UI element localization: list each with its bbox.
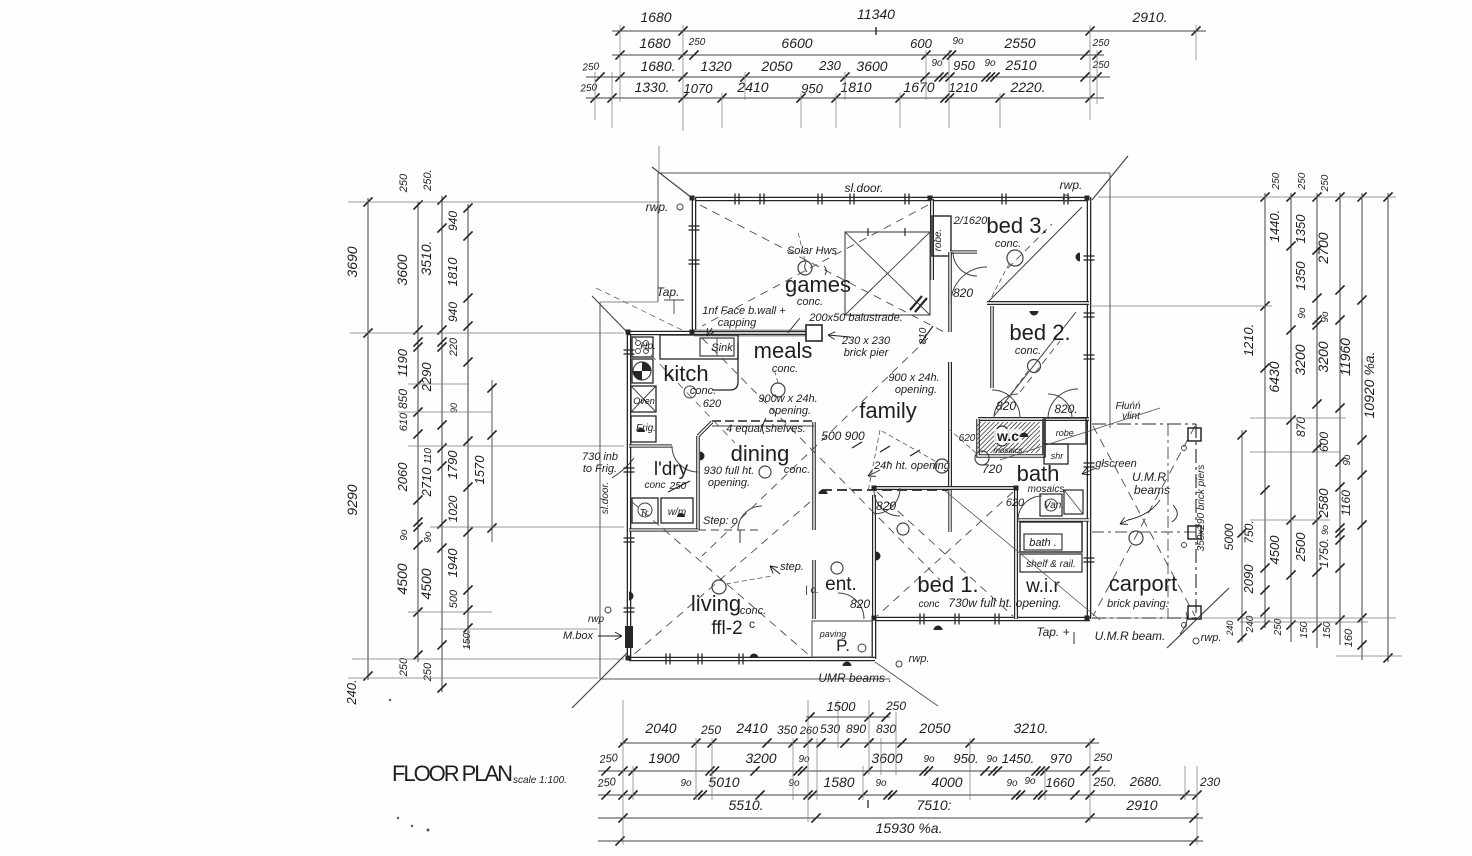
svg-text:sl.door.: sl.door. [845, 181, 884, 195]
kitchen bench and sink [660, 335, 738, 359]
exterior wall living bottom [629, 657, 875, 662]
svg-text:ffl-2: ffl-2 [711, 618, 742, 639]
svg-text:230: 230 [1199, 775, 1220, 789]
light meals [771, 383, 785, 397]
shr box [1044, 444, 1068, 464]
svg-text:15930 %a.: 15930 %a. [876, 820, 943, 836]
svg-text:1900: 1900 [648, 750, 679, 766]
svg-text:l'dry: l'dry [654, 459, 689, 480]
svg-text:250: 250 [598, 752, 619, 766]
svg-text:940: 940 [446, 302, 460, 322]
svg-text:250: 250 [688, 37, 706, 48]
svg-text:Frig.: Frig. [636, 423, 656, 434]
exterior wall porch right [872, 617, 877, 659]
svg-text:820.: 820. [1054, 402, 1077, 416]
svg-text:1680.: 1680. [640, 58, 675, 74]
carport side dim 5000 [1241, 430, 1243, 642]
svg-text:| o.: | o. [805, 585, 819, 596]
svg-text:9o: 9o [931, 58, 943, 69]
svg-text:rwp.: rwp. [1060, 178, 1083, 192]
right dim line C [1316, 193, 1318, 648]
kitchen oven crossed box [631, 386, 656, 412]
svg-text:brick paving.: brick paving. [1107, 598, 1169, 610]
svg-text:1450.: 1450. [1002, 751, 1035, 766]
svg-text:opening.: opening. [895, 384, 937, 396]
svg-text:1350: 1350 [1293, 214, 1308, 244]
svg-text:730 inb: 730 inb [582, 451, 618, 463]
svg-text:3200: 3200 [1315, 341, 1331, 372]
svg-text:4500: 4500 [394, 563, 410, 594]
svg-text:620: 620 [703, 398, 722, 410]
left extension lines [348, 201, 660, 203]
dining corner angled wall [698, 422, 712, 436]
svg-text:11340: 11340 [857, 6, 895, 22]
door wc 820 [994, 394, 1018, 418]
light carport [1129, 531, 1143, 545]
svg-text:step.: step. [780, 561, 804, 573]
svg-text:1680: 1680 [639, 35, 670, 51]
interior wall bed3 bottom [987, 301, 1089, 305]
svg-text:250: 250 [596, 776, 617, 790]
door kitchen-dining 620 [738, 506, 762, 530]
carport brick piers [1188, 428, 1201, 441]
svg-text:950.: 950. [953, 751, 978, 766]
svg-text:250: 250 [1273, 618, 1284, 636]
door bath hall 820 [1048, 394, 1072, 418]
svg-text:1580: 1580 [823, 774, 854, 790]
svg-text:930 full ht.: 930 full ht. [704, 465, 755, 477]
svg-text:250: 250 [1297, 172, 1308, 190]
interior wall bath bottom [1016, 518, 1089, 522]
kitchen frig box [631, 416, 656, 442]
svg-text:3510.: 3510. [418, 240, 434, 275]
balustrade end double slash [910, 296, 922, 310]
carport centre lines [1092, 531, 1196, 533]
right extension lines [1098, 196, 1396, 198]
interior wall bed1 right [1014, 488, 1018, 619]
carport outline dash-dot [1092, 423, 1196, 425]
roof beam diagonals games [700, 205, 948, 334]
svg-text:3200: 3200 [745, 750, 776, 766]
svg-text:2050: 2050 [760, 58, 792, 74]
dimension row bottom-0 [806, 716, 890, 718]
svg-text:2060: 2060 [395, 462, 410, 493]
exterior wall right [1087, 197, 1092, 619]
left dim line A [367, 198, 369, 680]
svg-text:paving: paving [819, 629, 847, 639]
window marks left wall [624, 349, 635, 351]
svg-text:2680.: 2680. [1129, 774, 1163, 789]
svg-text:350: 350 [777, 723, 797, 737]
room label wc [994, 429, 1022, 443]
svg-text:vłint: vłint [1122, 411, 1141, 422]
svg-text:conc.: conc. [772, 363, 798, 375]
balustrade wall games-meals [694, 330, 806, 337]
interior wall bed1 left [872, 495, 876, 619]
dimension row top-2 [612, 54, 1104, 56]
svg-text:Step: o.: Step: o. [703, 515, 741, 527]
svg-text:9o: 9o [680, 778, 692, 789]
exterior wall games left [692, 197, 697, 334]
svg-text:9o: 9o [1320, 311, 1331, 323]
svg-text:10920 %a.: 10920 %a. [1361, 352, 1377, 419]
wc room walls [978, 419, 1044, 456]
svg-text:260: 260 [799, 725, 819, 737]
dimension row bottom-4 [598, 817, 1203, 819]
svg-text:950: 950 [953, 58, 975, 73]
svg-text:150: 150 [1299, 621, 1310, 638]
svg-text:rwp.: rwp. [646, 200, 669, 214]
svg-text:820: 820 [850, 597, 870, 611]
svg-text:w/m: w/m [668, 507, 686, 518]
light bed1 [935, 459, 949, 473]
roof beam diagonals living [632, 502, 810, 656]
svg-text:9o: 9o [984, 58, 996, 69]
svg-text:9o: 9o [1342, 454, 1353, 466]
svg-text:9o: 9o [923, 754, 935, 765]
svg-text:3690: 3690 [344, 246, 360, 277]
svg-text:c: c [749, 617, 755, 631]
right dim line A [1264, 193, 1266, 628]
door ldry-kitchen 620 [672, 446, 698, 472]
window marks games left wall [689, 225, 700, 227]
wc mosaic hatch [977, 422, 981, 426]
svg-text:160: 160 [1343, 628, 1355, 647]
svg-text:850: 850 [396, 389, 410, 409]
door ent 820 [838, 593, 864, 619]
svg-text:600: 600 [910, 36, 932, 51]
svg-text:610: 610 [398, 412, 410, 431]
svg-text:2410: 2410 [736, 79, 768, 95]
light bed2 [1028, 360, 1041, 373]
svg-text:2910: 2910 [1125, 797, 1157, 813]
interior wall hall left [948, 252, 952, 332]
svg-text:90: 90 [449, 403, 459, 413]
interior wall bed3 door stub [950, 250, 977, 253]
svg-text:Van.: Van. [1044, 500, 1064, 511]
window marks living bottom wall [665, 654, 667, 665]
dimension row top-3 [586, 76, 1110, 78]
svg-text:2290: 2290 [419, 362, 434, 393]
svg-text:dining: dining [731, 441, 790, 466]
light ent [831, 562, 843, 574]
svg-text:250: 250 [1092, 38, 1110, 49]
svg-text:bath: bath [1017, 461, 1060, 486]
left dim line C [441, 196, 443, 692]
svg-text:1570: 1570 [472, 455, 487, 485]
svg-text:500: 500 [448, 589, 460, 608]
svg-text:2410: 2410 [735, 720, 767, 736]
svg-text:games: games [785, 272, 851, 297]
svg-text:250: 250 [398, 657, 410, 677]
svg-text:UMR beams .: UMR beams . [818, 671, 891, 685]
svg-text:250: 250 [885, 699, 906, 713]
door bed2 left 820 [992, 390, 1020, 418]
interior wall family-living dashed [822, 489, 948, 491]
svg-text:1680: 1680 [640, 9, 671, 25]
svg-text:conc.: conc. [740, 605, 766, 617]
brick pier 230x230 [806, 325, 822, 341]
stray marks [397, 817, 399, 819]
light living [712, 580, 726, 594]
svg-text:4 equal shelves.: 4 equal shelves. [726, 423, 806, 435]
robe box [1044, 418, 1086, 444]
svg-text:ent.: ent. [825, 574, 857, 595]
svg-text:230: 230 [818, 58, 841, 73]
svg-text:250: 250 [700, 723, 721, 737]
svg-text:2220.: 2220. [1009, 79, 1045, 95]
svg-text:9290: 9290 [344, 484, 360, 515]
svg-text:living: living [691, 591, 741, 616]
svg-text:890: 890 [846, 722, 866, 736]
roof beam diagonals family meals [702, 338, 940, 580]
svg-text:2910.: 2910. [1131, 9, 1167, 25]
svg-text:4000: 4000 [931, 774, 962, 790]
svg-text:opening.: opening. [769, 405, 811, 417]
roof beam diagonals kitchen [633, 336, 735, 443]
svg-text:conc: conc [644, 480, 665, 491]
svg-text:24ħ ht. opening: 24ħ ht. opening [873, 460, 951, 472]
window marks bed1 bottom wall [919, 614, 921, 625]
svg-text:620: 620 [959, 433, 976, 444]
light dining [759, 466, 771, 478]
dimension row bottom-5 [598, 840, 1203, 842]
svg-text:bed 3.: bed 3. [986, 213, 1047, 238]
roof beam diagonal bed2 [994, 312, 1076, 416]
svg-text:250: 250 [1271, 172, 1282, 190]
svg-text:conc.: conc. [784, 464, 810, 476]
svg-text:9o: 9o [1297, 307, 1308, 319]
svg-text:1350: 1350 [1293, 261, 1308, 291]
exterior wall bed1 bottom [872, 617, 1090, 622]
svg-text:820: 820 [876, 499, 896, 513]
svg-text:940: 940 [446, 211, 460, 231]
svg-text:5000: 5000 [1222, 523, 1236, 550]
interior wall family right [948, 362, 952, 490]
door bath 620 [1018, 496, 1042, 520]
leader line flush vent [1000, 408, 1160, 460]
svg-text:sl.door.: sl.door. [600, 482, 611, 514]
interior wall wc-robe top [978, 417, 1089, 421]
svg-text:3600: 3600 [394, 254, 410, 285]
svg-text:11960: 11960 [1337, 338, 1353, 376]
exterior wall kitchen top [628, 331, 694, 336]
svg-text:Oven: Oven [633, 396, 655, 406]
svg-text:240.: 240. [344, 679, 359, 705]
svg-text:820: 820 [953, 286, 973, 300]
svg-text:1330.: 1330. [634, 79, 669, 95]
extension lines bottom [622, 700, 624, 845]
svg-text:meals: meals [754, 338, 813, 363]
svg-text:rwp.: rwp. [909, 653, 930, 665]
svg-text:1670: 1670 [903, 79, 934, 95]
svg-text:870: 870 [1294, 417, 1308, 437]
roof beam diagonals bed1 [877, 492, 1013, 616]
svg-text:900w x 24h.: 900w x 24h. [758, 393, 817, 405]
svg-text:820: 820 [996, 399, 1016, 413]
door bed3 robe 2/1620 [953, 252, 977, 276]
svg-text:500 900: 500 900 [821, 429, 865, 443]
door bed2 right 820 [1048, 389, 1078, 419]
svg-text:capping: capping [718, 317, 757, 329]
svg-text:5510.: 5510. [728, 797, 763, 813]
svg-text:600: 600 [1317, 432, 1331, 452]
light porch [858, 644, 866, 652]
svg-text:9o: 9o [423, 531, 434, 543]
svg-text:6430: 6430 [1266, 361, 1282, 392]
interior wall bed2 left [990, 306, 994, 388]
extension lines top [619, 25, 621, 102]
svg-text:150.: 150. [462, 630, 473, 649]
right dim line F total [1387, 193, 1389, 662]
svg-text:family: family [859, 398, 916, 423]
door family-living 820 [874, 490, 900, 516]
svg-text:U.M.R: U.M.R [1132, 470, 1166, 484]
svg-text:250: 250 [1092, 60, 1110, 71]
porch slab [812, 621, 872, 657]
svg-text:3600: 3600 [871, 750, 902, 766]
svg-text:rwp: rwp [588, 614, 605, 625]
svg-text:200x50 balustrade.: 200x50 balustrade. [808, 312, 903, 324]
svg-text:250: 250 [1093, 752, 1113, 764]
interior wall games right [930, 199, 934, 280]
svg-text:3600: 3600 [856, 58, 887, 74]
right dim line D [1339, 193, 1341, 645]
svg-text:Tap. +: Tap. + [1036, 625, 1069, 639]
svg-text:4500: 4500 [1267, 535, 1282, 565]
svg-text:1070: 1070 [684, 81, 714, 96]
svg-text:scale 1:100.: scale 1:100. [513, 775, 567, 786]
svg-text:1440.: 1440. [1267, 210, 1282, 243]
svg-text:830: 830 [876, 722, 896, 736]
svg-text:mosaics: mosaics [1028, 484, 1065, 495]
svg-text:2710: 2710 [419, 467, 434, 498]
carport diagonals [1093, 426, 1195, 616]
svg-text:220: 220 [448, 337, 460, 357]
svg-text:9o: 9o [986, 754, 998, 765]
svg-text:240: 240 [1225, 620, 1235, 636]
mbox mark [625, 626, 633, 648]
svg-text:kitch: kitch [663, 361, 708, 386]
interior wall ldry bottom / living top [629, 528, 698, 531]
svg-text:rwp.: rwp. [1201, 632, 1222, 644]
eaves corner slashes [652, 167, 692, 198]
svg-text:1500: 1500 [827, 699, 857, 714]
svg-text:Hp.: Hp. [640, 341, 656, 352]
svg-text:9o: 9o [1320, 525, 1330, 535]
svg-text:M.box: M.box [563, 630, 593, 642]
svg-text:robe.: robe. [933, 229, 944, 252]
svg-text:1790: 1790 [445, 450, 460, 480]
svg-text:Solar Hws: Solar Hws [787, 245, 838, 257]
svg-text:1940: 1940 [445, 548, 460, 578]
dimension row top-4 [586, 97, 1104, 99]
svg-text:2700: 2700 [1315, 232, 1331, 264]
svg-text:9o: 9o [875, 778, 887, 789]
svg-text:1160: 1160 [1339, 490, 1353, 516]
solar hws square [845, 232, 930, 315]
svg-text:2500: 2500 [1293, 532, 1308, 563]
dimension row bottom-3 [598, 794, 1197, 796]
laundry trough box [632, 498, 658, 523]
svg-text:9o: 9o [952, 36, 964, 47]
svg-text:shr: shr [1051, 451, 1065, 461]
svg-text:250.: 250. [422, 169, 434, 191]
dimension row bottom-1 [620, 742, 1099, 744]
svg-text:2550: 2550 [1003, 35, 1035, 51]
svg-text:250: 250 [398, 173, 410, 193]
left dim line D [467, 204, 469, 648]
svg-text:2510: 2510 [1004, 57, 1036, 73]
interior wall ldry-kitchen [629, 444, 672, 447]
svg-text:9o: 9o [1024, 776, 1036, 787]
svg-text:1210: 1210 [949, 80, 979, 95]
wall junction blobs [690, 196, 695, 201]
svg-text:250.: 250. [1092, 775, 1116, 789]
svg-text:conc.: conc. [797, 296, 823, 308]
exterior wall top [694, 197, 1089, 202]
light bed3 [1007, 250, 1023, 266]
door bed1 820 [874, 488, 900, 514]
svg-text:2040: 2040 [644, 720, 676, 736]
exterior wall left [627, 333, 632, 660]
svg-text:w.i.r: w.i.r [1025, 576, 1060, 597]
interior wall ent-living [812, 422, 816, 530]
kitchen hotplate [632, 337, 653, 357]
svg-text:bed 2.: bed 2. [1009, 320, 1070, 345]
kitchen wall oven circle [632, 359, 653, 383]
svg-text:620: 620 [1006, 497, 1025, 509]
svg-text:1320: 1320 [700, 58, 731, 74]
roof beam diagonal bed3 [988, 207, 1082, 302]
robe bed3 closet [932, 216, 951, 256]
dimension row top-1 [612, 30, 1206, 32]
bath shower box [1064, 490, 1083, 514]
svg-text:6600: 6600 [781, 35, 812, 51]
svg-text:530: 530 [820, 722, 840, 736]
wall dot marks [700, 452, 705, 461]
svg-text:3210.: 3210. [1013, 720, 1048, 736]
light games [798, 261, 812, 275]
laundry wm box [661, 498, 693, 523]
light family [975, 451, 989, 465]
svg-text:3200: 3200 [1292, 344, 1308, 375]
right dim line B [1290, 193, 1292, 642]
svg-text:5010: 5010 [708, 774, 739, 790]
right dim line E [1361, 193, 1363, 660]
svg-text:U.M.R beam.: U.M.R beam. [1095, 629, 1166, 643]
svg-text:1210.: 1210. [1241, 324, 1256, 357]
svg-text:150: 150 [1322, 621, 1333, 638]
svg-text:4500: 4500 [418, 568, 434, 599]
svg-text:250: 250 [1320, 174, 1331, 192]
svg-text:conc.: conc. [995, 238, 1021, 250]
dimension row bottom-2 [598, 770, 1110, 772]
svg-text:FLOOR PLAN: FLOOR PLAN [392, 761, 514, 786]
wc pan [995, 426, 1009, 446]
svg-text:1nf Face b.wall +: 1nf Face b.wall + [702, 305, 786, 317]
bath vanity [1040, 494, 1062, 516]
svg-text:1750.: 1750. [1317, 538, 1331, 568]
svg-text:Tr.: Tr. [639, 508, 650, 519]
svg-text:bed 1.: bed 1. [917, 572, 978, 597]
svg-text:Sink: Sink [711, 342, 733, 354]
svg-text:bath .: bath . [1029, 537, 1057, 549]
svg-text:9o: 9o [399, 529, 410, 541]
interior wall bed1 top [874, 486, 1016, 490]
svg-text:conc.: conc. [1015, 345, 1041, 357]
window marks right wall [1084, 255, 1095, 257]
